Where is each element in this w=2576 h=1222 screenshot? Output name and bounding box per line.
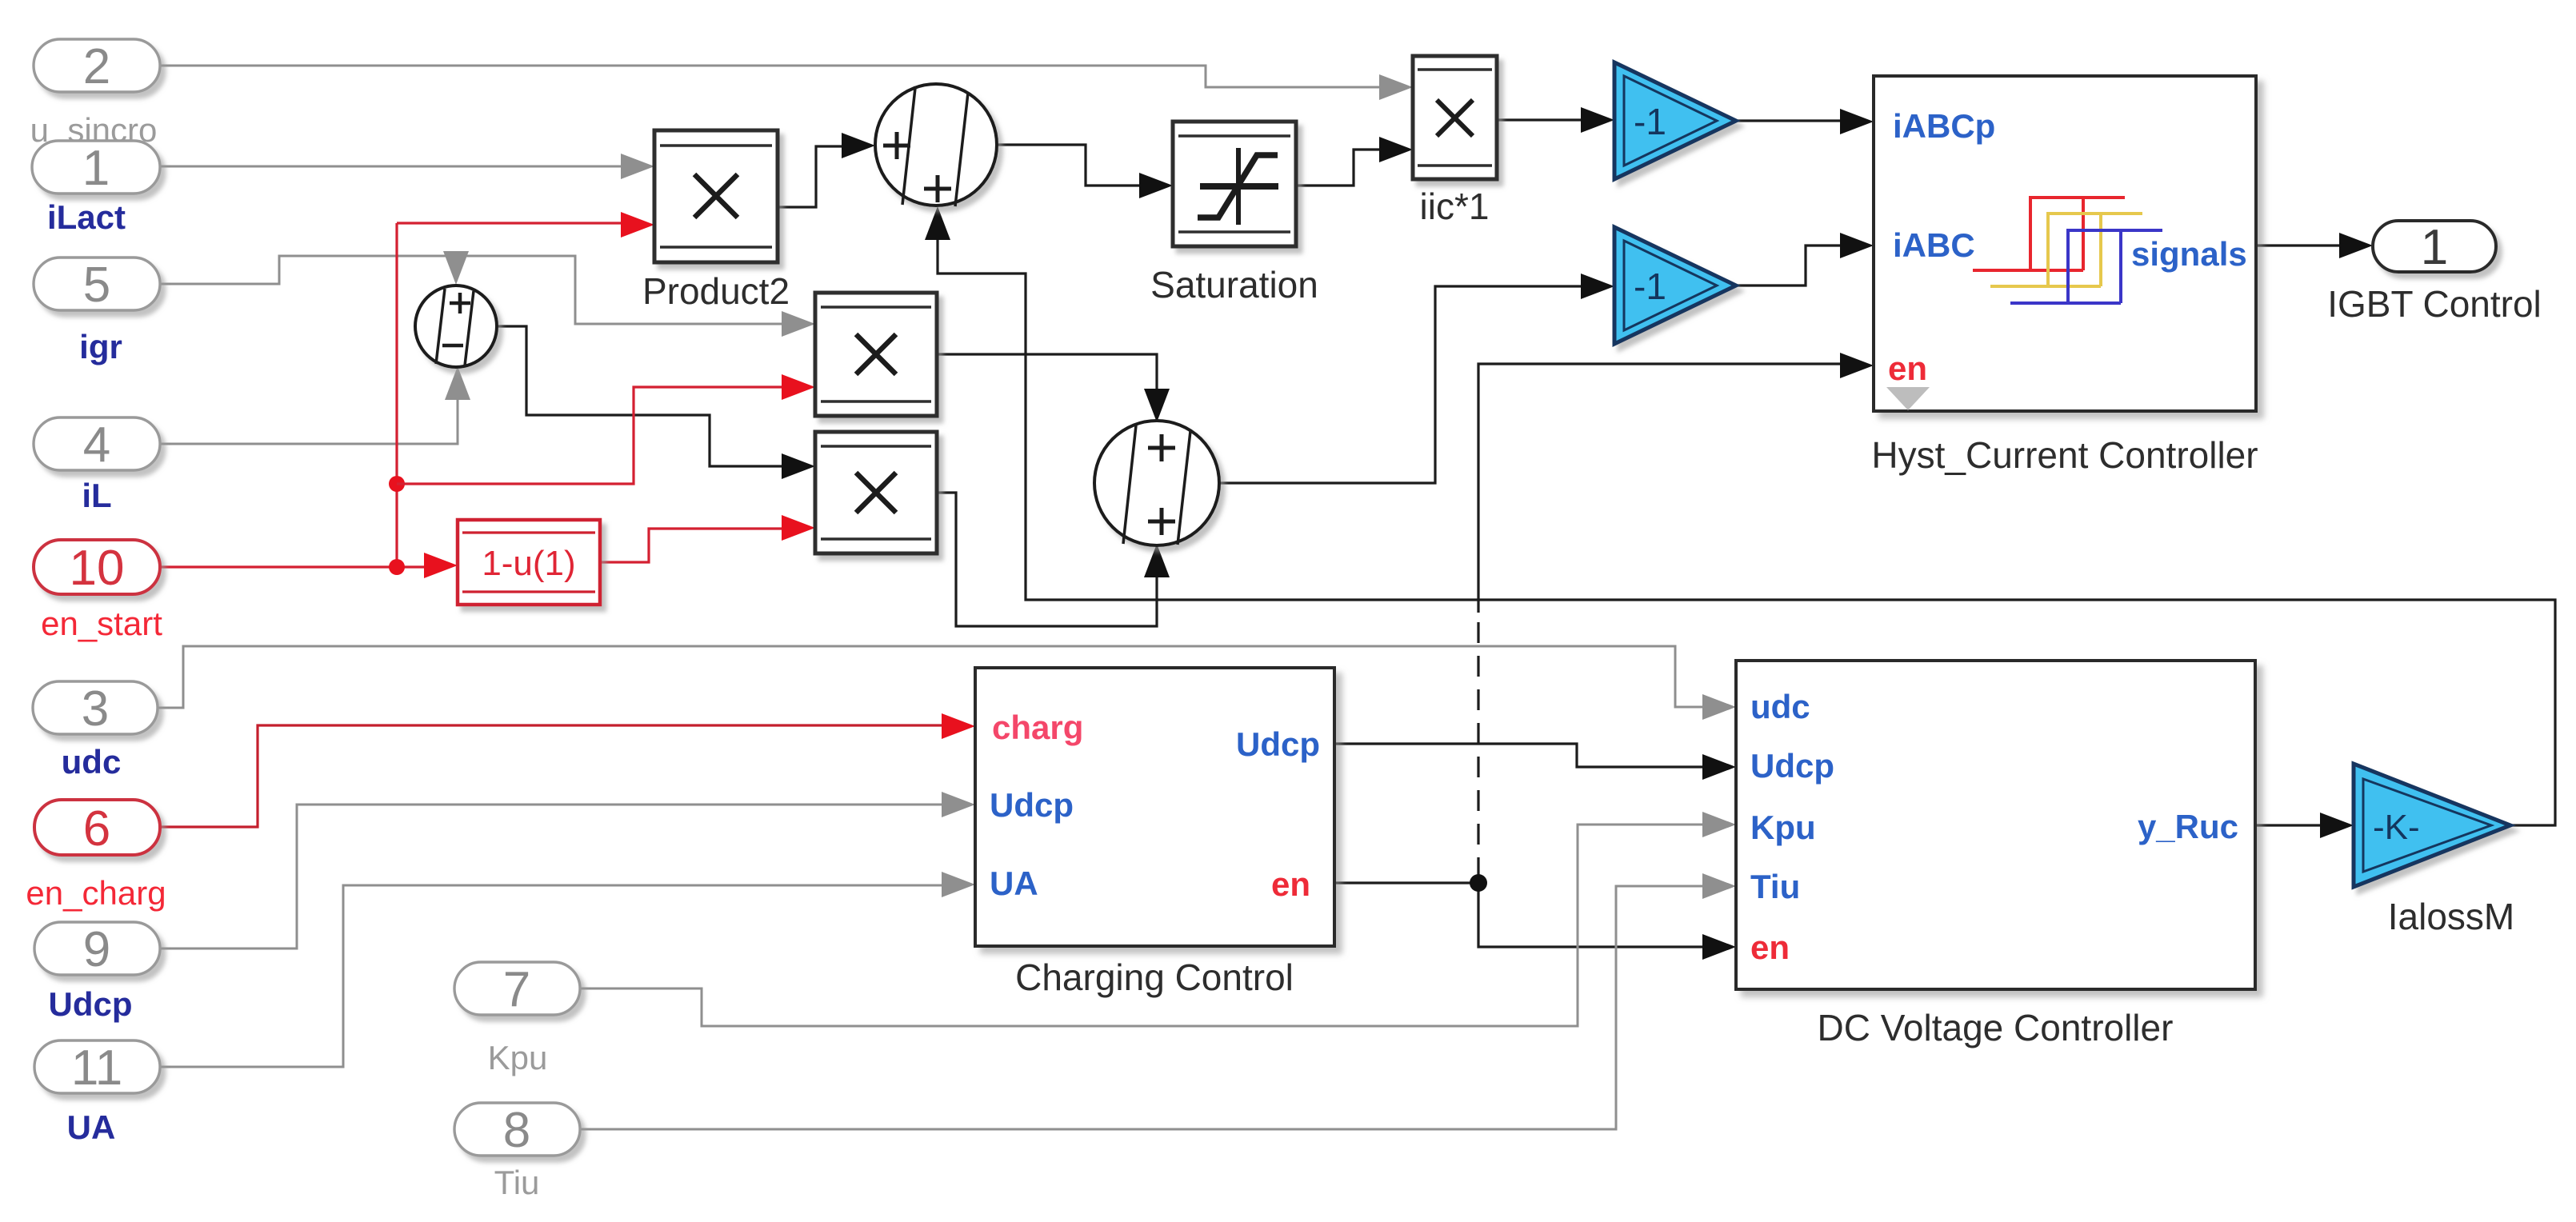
svg-text:en_charg: en_charg [26, 874, 166, 912]
output port 1 IGBT Control [2373, 220, 2496, 275]
svg-text:Udcp: Udcp [1236, 725, 1320, 763]
svg-text:y_Ruc: y_Ruc [2138, 808, 2238, 845]
svg-text:1-u(1): 1-u(1) [482, 544, 575, 583]
svg-text:Udcp: Udcp [1750, 747, 1834, 785]
gain block iic*1 (multiplier) [1413, 56, 1497, 227]
svg-text:-K-: -K- [2373, 808, 2420, 847]
wire: Product2 output to sum1 left input (black) [778, 133, 875, 207]
svg-text:en: en [1750, 928, 1790, 966]
svg-text:iABCp: iABCp [1893, 107, 1995, 145]
svg-text:en: en [1888, 349, 1927, 387]
sum block 1 (top adder) [875, 84, 997, 206]
svg-text:Tiu: Tiu [494, 1164, 540, 1201]
svg-text:IGBT Control: IGBT Control [2327, 283, 2542, 325]
product block Product2 [642, 130, 790, 312]
wire: Charging en output with junction, up to Hyst en and down to DC en (black) [1334, 353, 1874, 960]
svg-text:udc: udc [62, 743, 122, 781]
svg-text:iic*1: iic*1 [1420, 186, 1490, 227]
wire: sum2 output up to gain -1 lower (black) [1219, 274, 1614, 483]
wire: gain -1 upper output to Hyst iABCp input (black) [1736, 109, 1874, 134]
saturation block Saturation [1150, 122, 1318, 305]
product block B (lower multiplier) [815, 432, 937, 553]
gain -1 lower (cyan triangle) [1614, 227, 1736, 344]
wire Udcp: port 9 to Charging Control Udcp input (grey) [158, 792, 975, 948]
Fcn block 1-u(1) (red) [458, 520, 600, 605]
subsystem block Charging Control [975, 668, 1334, 998]
input port 7 [454, 962, 580, 1017]
sum block 2 (middle adder) [1094, 421, 1219, 545]
svg-text:iABC: iABC [1893, 226, 1975, 264]
gain -1 upper (cyan triangle) [1614, 62, 1736, 179]
svg-text:7: 7 [503, 962, 530, 1017]
svg-text:UA: UA [67, 1108, 116, 1146]
svg-text:igr: igr [79, 328, 122, 365]
svg-text:en: en [1271, 865, 1310, 903]
svg-text:en_start: en_start [41, 605, 162, 642]
svg-text:Saturation: Saturation [1150, 264, 1318, 305]
svg-text:udc: udc [1750, 688, 1810, 725]
svg-text:Hyst_Current Controller: Hyst_Current Controller [1871, 434, 2258, 476]
input port 9 [34, 922, 160, 977]
svg-text:1: 1 [82, 141, 110, 196]
subsystem block DC Voltage Controller [1736, 661, 2255, 1048]
wire: Charging Udcp output to DC controller Udcp input (black) [1334, 744, 1736, 780]
input port 4 [34, 417, 160, 473]
svg-text:UA: UA [990, 865, 1038, 902]
svg-text:-1: -1 [1634, 101, 1666, 142]
svg-text:2: 2 [83, 39, 110, 94]
wire udc: port 3 to DC controller udc input (grey) [158, 646, 1736, 720]
wire iLact: port 1 to Product2 input 1 (grey) [160, 154, 654, 179]
wire: iic*1 output to gain -1 upper (black) [1497, 107, 1614, 133]
wire: red branch to Product2 input 2 (red) [397, 212, 654, 238]
svg-text:Udcp: Udcp [990, 786, 1074, 824]
svg-text:1: 1 [2421, 220, 2448, 275]
product block A (middle multiplier) [815, 293, 937, 416]
input port 2 [34, 39, 160, 94]
svg-text:Kpu: Kpu [1750, 809, 1816, 846]
input port 3 [33, 681, 158, 737]
wire igr: port 5 to product block A input 1 (grey) with branch to left sum top [160, 251, 815, 337]
input port 5 [34, 258, 160, 313]
wire: sum1 output to Saturation input (black) [997, 145, 1173, 198]
svg-text:4: 4 [83, 417, 110, 473]
svg-text:Charging Control: Charging Control [1015, 956, 1294, 998]
wire: left sum output to product block B input 1 (black) [497, 326, 815, 479]
input port 8 [454, 1103, 580, 1158]
input port 11 [34, 1040, 160, 1096]
svg-text:Tiu: Tiu [1750, 868, 1800, 905]
svg-text:charg: charg [992, 709, 1083, 746]
wire: product B output down and around to sum2 bottom input (black) [937, 493, 1170, 626]
wire: red branch to product block A input 2 (red) [397, 374, 815, 484]
svg-text:Udcp: Udcp [49, 985, 133, 1023]
wire u_sincro: port 2 to iic*1 input 1 (grey) [160, 66, 1413, 100]
wire: DC y_Ruc output to IalossM gain (black) [2255, 813, 2354, 838]
wire en_start: port 10 to 1-u(1) block, with vertical branch (red) [160, 223, 458, 578]
svg-text:10: 10 [70, 541, 125, 596]
wire en_charg: port 6 to Charging Control charg input (red) [160, 713, 975, 827]
input port 1 [32, 141, 160, 196]
svg-text:Kpu: Kpu [488, 1039, 548, 1076]
wire iL: port 4 to left sum bottom input (grey) [160, 366, 470, 444]
svg-text:IalossM: IalossM [2388, 896, 2514, 937]
svg-text:iLact: iLact [47, 198, 126, 236]
input port 10 (red) [34, 540, 160, 596]
svg-text:6: 6 [83, 801, 110, 857]
wire: IalossM feedback loop to sum1 bottom input (black) [925, 206, 2555, 825]
svg-text:-1: -1 [1634, 266, 1666, 307]
svg-text:Product2: Product2 [642, 270, 790, 312]
svg-text:11: 11 [71, 1040, 122, 1096]
svg-text:9: 9 [83, 922, 110, 977]
wire: product A output to sum2 top input (black) [937, 354, 1170, 422]
svg-text:iL: iL [82, 477, 111, 514]
gain -K- IalossM (cyan triangle) [2354, 764, 2514, 937]
wire Tiu: port 8 to DC controller Tiu input (grey) [580, 873, 1736, 1129]
wire: Hyst output to IGBT Control port (black) [2256, 233, 2373, 258]
svg-text:DC Voltage Controller: DC Voltage Controller [1818, 1007, 2174, 1048]
svg-text:3: 3 [82, 681, 109, 737]
svg-text:8: 8 [503, 1103, 530, 1158]
svg-text:5: 5 [83, 258, 110, 313]
subsystem block Hyst_Current Controller [1871, 76, 2258, 476]
wire Kpu: port 7 to DC controller Kpu input (grey) [580, 812, 1736, 1026]
sum block left (plus/minus) [415, 286, 497, 367]
wire: Saturation output to iic*1 input 2 (black) [1296, 137, 1413, 186]
svg-text:signals: signals [2131, 235, 2247, 273]
input port 6 (red) [34, 800, 160, 857]
wire: gain -1 lower output to Hyst iABC input (black) [1736, 233, 1874, 286]
wire UA: port 11 to Charging Control UA input (grey) [160, 872, 975, 1067]
wire: 1-u(1) output to product block B input 2 (red) [600, 515, 815, 562]
